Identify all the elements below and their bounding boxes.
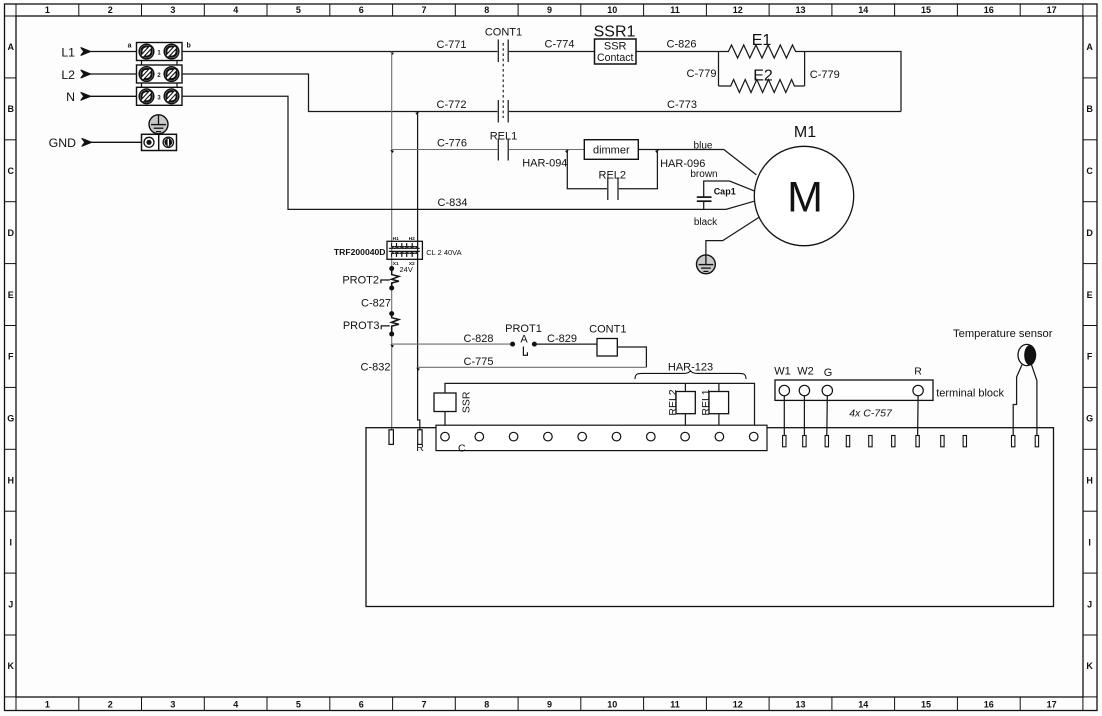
svg-text:REL2: REL2 bbox=[599, 170, 627, 182]
svg-text:E: E bbox=[1087, 290, 1093, 300]
svg-text:4: 4 bbox=[233, 700, 238, 710]
svg-text:12: 12 bbox=[733, 700, 743, 710]
svg-text:C-774: C-774 bbox=[545, 39, 575, 51]
svg-text:J: J bbox=[8, 599, 13, 609]
svg-text:17: 17 bbox=[1047, 5, 1057, 15]
svg-text:C: C bbox=[1086, 166, 1093, 176]
wire R to pin bbox=[917, 396, 920, 436]
svg-text:8: 8 bbox=[484, 5, 489, 15]
svg-text:J: J bbox=[1087, 599, 1092, 609]
svg-text:G: G bbox=[7, 414, 14, 424]
node GND bbox=[49, 136, 76, 150]
svg-text:X1: X1 bbox=[393, 261, 399, 267]
svg-text:10: 10 bbox=[607, 5, 617, 15]
svg-text:A: A bbox=[520, 333, 528, 345]
svg-text:GND: GND bbox=[49, 136, 76, 150]
svg-text:R: R bbox=[914, 365, 922, 377]
pin C-832 bbox=[389, 430, 393, 445]
junction bus1/C-828 bbox=[390, 344, 394, 347]
wire N input bbox=[88, 95, 137, 97]
svg-text:G: G bbox=[1086, 414, 1093, 424]
svg-text:7: 7 bbox=[421, 5, 426, 15]
svg-text:11: 11 bbox=[670, 5, 680, 15]
wire contact to dimmer bbox=[509, 149, 584, 151]
svg-text:24V: 24V bbox=[400, 265, 413, 274]
svg-text:6: 6 bbox=[359, 5, 364, 15]
svg-text:SSR: SSR bbox=[604, 40, 627, 52]
terminal G bbox=[822, 385, 832, 395]
wire SSR to pin C bbox=[444, 412, 446, 433]
svg-text:C-832: C-832 bbox=[361, 362, 391, 374]
node 24V junction bbox=[389, 266, 394, 271]
terminal W1 bbox=[779, 385, 789, 395]
svg-text:black: black bbox=[694, 217, 718, 228]
wire W1 to pin bbox=[783, 396, 785, 436]
svg-text:C-771: C-771 bbox=[437, 39, 467, 51]
svg-text:REL1: REL1 bbox=[700, 389, 712, 415]
board pin 2 bbox=[803, 436, 806, 447]
wire C-773 bbox=[509, 111, 901, 113]
pin sensor 1 bbox=[1012, 436, 1015, 447]
wire GND input bbox=[89, 141, 142, 143]
svg-text:C-772: C-772 bbox=[437, 99, 467, 111]
svg-text:HAR-094: HAR-094 bbox=[522, 158, 567, 170]
temperature sensor bead bbox=[1018, 344, 1036, 365]
svg-text:PROT2: PROT2 bbox=[342, 274, 379, 286]
svg-text:C-827: C-827 bbox=[361, 297, 391, 309]
mechanical linkage dashed CONT1 bbox=[502, 43, 504, 118]
svg-text:12: 12 bbox=[733, 5, 743, 15]
node E-network right bar bbox=[804, 52, 806, 87]
svg-text:4: 4 bbox=[233, 5, 238, 15]
svg-text:PROT3: PROT3 bbox=[343, 320, 380, 332]
relay coil REL2 bbox=[676, 392, 695, 414]
svg-text:H: H bbox=[8, 476, 15, 486]
svg-text:TRF200040D: TRF200040D bbox=[334, 247, 386, 257]
svg-text:1: 1 bbox=[45, 5, 50, 15]
SSR driver box bbox=[434, 393, 456, 412]
svg-text:CONT1: CONT1 bbox=[589, 324, 626, 336]
svg-text:W2: W2 bbox=[797, 365, 814, 377]
svg-text:A: A bbox=[1086, 42, 1093, 52]
thermal cutout PROT1 bbox=[505, 323, 542, 355]
wire bus1 vertical bbox=[391, 52, 393, 269]
node L1 bbox=[61, 45, 75, 59]
terminal block pole 3 bbox=[137, 87, 183, 105]
terminal block pole 2 bbox=[137, 65, 183, 83]
controller board outline bbox=[366, 428, 1054, 607]
board socket 7 bbox=[647, 432, 656, 441]
board pin 7 bbox=[916, 436, 919, 447]
svg-text:C-779: C-779 bbox=[810, 69, 840, 81]
wire W2 to pin bbox=[803, 396, 805, 436]
svg-text:B: B bbox=[8, 104, 15, 114]
transformer TRF200040D bbox=[334, 236, 462, 267]
dimmer box bbox=[584, 140, 638, 160]
svg-text:I: I bbox=[1088, 537, 1091, 547]
relay coil REL1 bbox=[709, 392, 729, 414]
svg-text:C-829: C-829 bbox=[547, 333, 577, 345]
svg-text:blue: blue bbox=[694, 140, 713, 151]
svg-text:15: 15 bbox=[921, 700, 931, 710]
board socket 2 bbox=[475, 432, 484, 441]
wire dimmer to motor blue bbox=[638, 150, 756, 175]
svg-text:E: E bbox=[8, 290, 14, 300]
board socket 10 bbox=[749, 432, 758, 441]
svg-text:Temperature sensor: Temperature sensor bbox=[953, 328, 1053, 340]
terminal W2 bbox=[799, 385, 809, 395]
svg-text:Contact: Contact bbox=[597, 52, 634, 64]
svg-text:3: 3 bbox=[170, 700, 175, 710]
protective earth symbol (motor) bbox=[697, 255, 716, 274]
wire L1 to contact bbox=[182, 51, 497, 53]
relay contact REL2 parallel branch bbox=[567, 150, 657, 189]
svg-text:1: 1 bbox=[45, 700, 50, 710]
svg-text:14: 14 bbox=[858, 5, 868, 15]
svg-text:M: M bbox=[787, 174, 823, 222]
svg-text:dimmer: dimmer bbox=[593, 145, 630, 157]
wire bus2 vertical bbox=[417, 112, 419, 368]
thermal protector PROT3 bbox=[343, 314, 399, 334]
contactor contact CONT1 pole 1 bbox=[498, 40, 508, 63]
svg-text:D: D bbox=[1086, 228, 1093, 238]
svg-text:5: 5 bbox=[296, 5, 301, 15]
wire L2 input bbox=[88, 73, 137, 75]
svg-text:7: 7 bbox=[421, 700, 426, 710]
junction bus1/L1 bbox=[390, 52, 394, 55]
wire CONT1 return bbox=[617, 347, 646, 367]
board socket 8 (REL2) bbox=[681, 432, 690, 441]
wire C-826 bbox=[636, 51, 719, 53]
board pin 6 bbox=[892, 436, 895, 447]
board pin 5 bbox=[869, 436, 872, 447]
svg-text:9: 9 bbox=[547, 5, 552, 15]
svg-text:K: K bbox=[8, 661, 15, 671]
svg-text:terminal block: terminal block bbox=[936, 387, 1004, 399]
terminal R bbox=[913, 385, 923, 395]
wire C-774 bbox=[509, 51, 595, 53]
wire C-829 bbox=[534, 343, 597, 345]
svg-text:REL1: REL1 bbox=[490, 131, 518, 143]
svg-text:L1: L1 bbox=[61, 45, 75, 59]
board pin 3 bbox=[825, 436, 828, 447]
svg-text:11: 11 bbox=[670, 700, 680, 710]
svg-text:D: D bbox=[8, 228, 15, 238]
board pin 8 bbox=[941, 436, 944, 447]
board connector strip bbox=[436, 425, 767, 450]
svg-text:C-828: C-828 bbox=[464, 333, 494, 345]
svg-text:10: 10 bbox=[607, 700, 617, 710]
node L2 bbox=[61, 68, 75, 82]
svg-text:13: 13 bbox=[795, 700, 805, 710]
svg-text:H2: H2 bbox=[409, 236, 415, 242]
svg-text:R: R bbox=[416, 442, 424, 454]
wire C-775 bbox=[418, 366, 647, 368]
svg-text:C-826: C-826 bbox=[667, 39, 697, 51]
terminal link 2-3 bbox=[141, 83, 143, 87]
svg-text:13: 13 bbox=[795, 5, 805, 15]
svg-text:M1: M1 bbox=[794, 124, 816, 141]
svg-text:CL 2 40VA: CL 2 40VA bbox=[426, 248, 461, 257]
board socket 6 bbox=[612, 432, 621, 441]
svg-text:3: 3 bbox=[170, 5, 175, 15]
svg-text:H: H bbox=[1086, 476, 1093, 486]
board pin 4 bbox=[846, 436, 849, 447]
svg-text:I: I bbox=[10, 537, 13, 547]
board pin 1 bbox=[783, 436, 786, 447]
svg-text:C-773: C-773 bbox=[667, 99, 697, 111]
svg-text:Cap1: Cap1 bbox=[714, 187, 736, 197]
pin sensor 2 bbox=[1035, 436, 1038, 447]
svg-text:6: 6 bbox=[359, 700, 364, 710]
svg-text:C: C bbox=[8, 166, 15, 176]
junction REL2 branch left bbox=[565, 150, 569, 153]
wire sensor right leg bbox=[1032, 365, 1037, 436]
wire N drop C-834 bbox=[182, 96, 756, 209]
svg-text:K: K bbox=[1086, 661, 1093, 671]
svg-text:C-779: C-779 bbox=[687, 68, 717, 80]
board socket 3 bbox=[509, 432, 518, 441]
contactor contact CONT1 pole 2 bbox=[498, 100, 508, 123]
wire L1 input bbox=[88, 51, 137, 53]
wire motor ground lead bbox=[706, 218, 759, 256]
svg-text:L2: L2 bbox=[61, 68, 75, 82]
board socket 9 (REL1) bbox=[715, 432, 724, 441]
svg-text:brown: brown bbox=[690, 169, 717, 180]
svg-text:C-775: C-775 bbox=[464, 356, 494, 368]
svg-text:N: N bbox=[66, 90, 75, 104]
junction bus1/C-776 bbox=[390, 150, 394, 153]
svg-text:14: 14 bbox=[858, 700, 868, 710]
wire cap to C-834 bbox=[703, 201, 705, 209]
board socket 1 (C) bbox=[441, 432, 450, 441]
svg-text:C-776: C-776 bbox=[437, 137, 467, 149]
svg-text:9: 9 bbox=[547, 700, 552, 710]
protective earth symbol (top) bbox=[149, 115, 168, 134]
svg-text:SSR1: SSR1 bbox=[594, 24, 636, 41]
svg-text:b: b bbox=[187, 43, 191, 50]
svg-text:A: A bbox=[8, 42, 15, 52]
terminal block pole 1 bbox=[137, 43, 183, 61]
wire E-network to right drop bbox=[805, 52, 901, 112]
junction bus2/C-775 bbox=[416, 368, 420, 371]
svg-text:15: 15 bbox=[921, 5, 931, 15]
node junction above PROT3 bbox=[389, 311, 394, 316]
svg-text:CONT1: CONT1 bbox=[485, 27, 522, 39]
svg-text:17: 17 bbox=[1047, 700, 1057, 710]
terminal link 1-2 bbox=[141, 61, 143, 66]
svg-text:4x C-757: 4x C-757 bbox=[849, 407, 893, 419]
wire SSR-REL top run bbox=[445, 383, 755, 432]
svg-text:W1: W1 bbox=[774, 365, 791, 377]
svg-text:REL2: REL2 bbox=[667, 389, 679, 415]
svg-text:16: 16 bbox=[984, 700, 994, 710]
svg-text:B: B bbox=[1086, 104, 1093, 114]
board socket 4 bbox=[544, 432, 553, 441]
svg-text:a: a bbox=[128, 43, 132, 50]
svg-text:C-834: C-834 bbox=[438, 197, 468, 209]
node junction below PROT3 bbox=[389, 332, 394, 337]
wire C-828 bbox=[392, 343, 513, 345]
thermal protector PROT2 bbox=[342, 269, 399, 289]
pin R bbox=[418, 430, 422, 445]
node N bbox=[66, 90, 75, 104]
node junction below PROT2 bbox=[389, 286, 394, 291]
wire brown bbox=[704, 181, 755, 197]
svg-text:F: F bbox=[1087, 352, 1093, 362]
svg-text:H1: H1 bbox=[393, 236, 399, 242]
svg-text:2: 2 bbox=[108, 5, 113, 15]
board socket 5 bbox=[578, 432, 587, 441]
svg-text:16: 16 bbox=[984, 5, 994, 15]
wire G to pin bbox=[826, 396, 829, 436]
junction REL2 branch right bbox=[655, 150, 659, 153]
node E-network left bar bbox=[718, 52, 720, 87]
wire sensor left leg bbox=[1013, 365, 1022, 436]
board pin 9 bbox=[963, 436, 966, 447]
svg-text:F: F bbox=[8, 352, 14, 362]
junction bus2/C-772 bbox=[415, 112, 419, 115]
svg-text:8: 8 bbox=[484, 700, 489, 710]
svg-text:5: 5 bbox=[296, 700, 301, 710]
ground terminal block bbox=[142, 134, 177, 150]
svg-text:G: G bbox=[824, 367, 833, 379]
svg-text:SSR: SSR bbox=[461, 391, 473, 413]
svg-text:2: 2 bbox=[108, 700, 113, 710]
wire L2 drop bbox=[182, 74, 497, 112]
low voltage terminal block bbox=[775, 380, 933, 400]
wire C-776 bbox=[392, 149, 498, 151]
svg-text:C: C bbox=[458, 443, 466, 455]
